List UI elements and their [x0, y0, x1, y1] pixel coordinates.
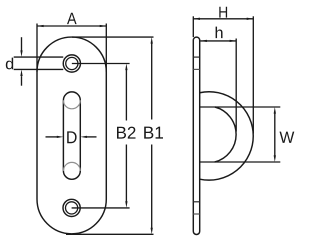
dimension d lower arrowhead	[20, 69, 22, 76]
dimension d upper line	[14, 56, 64, 58]
dimension h line	[200, 40, 236, 42]
label A	[67, 13, 77, 24]
label H	[219, 7, 227, 18]
slot top end radius (dark upper half)	[63, 92, 80, 100]
dimension W bottom arrowhead	[274, 155, 276, 162]
dimension B1 bottom arrowhead	[151, 228, 153, 235]
slot right edge	[79, 100, 81, 171]
dimension A extension line right	[105, 24, 107, 72]
side view bottom hole upper edge tick	[193, 201, 199, 203]
dimension h extension line right	[235, 39, 237, 132]
label B2	[117, 127, 136, 139]
B2 top extension line (from top hole centre)	[72, 63, 130, 65]
dimension B2 bottom arrowhead	[125, 201, 127, 208]
slot left edge	[62, 100, 64, 171]
dimension H line	[193, 18, 253, 20]
label h	[216, 27, 223, 38]
dimension B2 top arrowhead	[125, 64, 127, 71]
eye loop inner arc	[215, 107, 236, 162]
dimension B1 line lower segment	[151, 145, 153, 229]
label B1	[144, 127, 163, 139]
dimension A left arrowhead	[37, 25, 44, 27]
dimension h left arrowhead	[200, 40, 207, 42]
dimension d lower arrow line	[21, 76, 23, 86]
dimension d upper arrow line	[21, 37, 23, 50]
W bottom extension line	[200, 161, 281, 163]
bottom hole outer circle	[63, 199, 80, 216]
dimension B1 line upper segment	[151, 43, 153, 119]
label W	[280, 132, 295, 143]
dimension A extension line left	[36, 24, 38, 72]
dimension H extension line right	[252, 16, 254, 133]
dimension W top arrowhead	[274, 107, 276, 114]
B1 bottom extension line (from plate bottom apex)	[66, 233, 154, 235]
dimension d upper arrowhead	[20, 50, 22, 57]
dimension D left arrow line	[46, 136, 58, 138]
label D	[67, 131, 76, 143]
bottom hole inner circle	[66, 202, 78, 214]
side view top hole upper edge tick	[193, 56, 199, 58]
dimension D right arrowhead	[80, 136, 87, 138]
B2 bottom extension line (from bottom hole centre)	[72, 207, 130, 209]
dimension d lower line	[14, 68, 64, 70]
side plate outline (side view)	[193, 37, 199, 234]
slot bottom end radius (light upper half)	[63, 162, 80, 170]
dimension D left arrowhead	[57, 136, 64, 138]
dimension H left arrowhead	[193, 18, 200, 20]
side view top hole lower edge tick	[193, 68, 199, 70]
top hole inner circle	[66, 57, 78, 69]
dimension H extension line left	[192, 16, 194, 37]
dimension A line	[37, 25, 106, 27]
plate outline (front view)	[37, 37, 106, 234]
dimension W line	[274, 113, 276, 156]
slot top end radius (light lower half)	[63, 100, 80, 108]
dimension B1 top arrowhead	[151, 37, 153, 44]
top hole outer circle	[63, 55, 80, 72]
label d	[6, 58, 13, 70]
B1 top extension line (from plate top apex)	[72, 36, 154, 38]
eye loop outer arc	[200, 92, 254, 180]
W top extension line	[200, 106, 281, 108]
dimension H right arrowhead	[247, 18, 254, 20]
dimension B2 line upper segment	[125, 70, 127, 121]
dimension h right arrowhead	[230, 40, 237, 42]
slot bottom end radius (dark lower half)	[63, 171, 80, 179]
dimension A right arrowhead	[100, 25, 107, 27]
side view bottom hole lower edge tick	[193, 213, 199, 215]
dimension D right arrow line	[86, 136, 96, 138]
dimension B2 line lower segment	[125, 145, 127, 202]
